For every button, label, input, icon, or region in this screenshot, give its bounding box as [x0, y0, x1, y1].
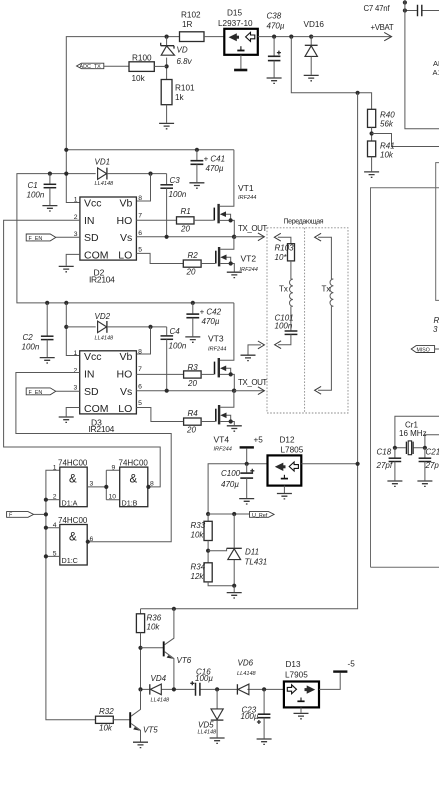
svg-text:R1: R1 [181, 207, 191, 216]
wire: LO pin 5 step down to R2 [136, 253, 183, 263]
ground: under R101 [159, 123, 174, 128]
svg-text:100n: 100n [27, 191, 45, 200]
svg-text:C1: C1 [28, 181, 38, 190]
node: rail junction pin4 [44, 526, 48, 530]
svg-text:VT6: VT6 [177, 656, 192, 665]
svg-text:C7 47nf: C7 47nf [364, 4, 391, 13]
svg-text:IRF244: IRF244 [240, 267, 258, 273]
diode VD1 LL4148 [95, 158, 167, 188]
resistor R40 56k [368, 109, 396, 141]
label TX_OUT lower with arrow [234, 378, 267, 395]
svg-text:IN: IN [84, 369, 95, 381]
svg-text:8: 8 [138, 349, 142, 356]
diode VD5 LL4148 [198, 689, 224, 737]
svg-text:TX_OUT: TX_OUT [238, 224, 267, 233]
node: VT3/VT4 midpoint junction [232, 389, 236, 393]
resistor R103 10* [275, 244, 295, 280]
wire: Vb pin 8 stub [136, 174, 150, 201]
node: VT6 base junction [138, 646, 142, 650]
ground: under R41 [364, 172, 379, 177]
wire: D3 main vertical rail to Vcc [66, 303, 79, 356]
zener diode VD 6.8v [161, 37, 193, 80]
svg-text:3: 3 [433, 325, 438, 334]
box: dashed transformer enclosure [267, 219, 348, 414]
wire: D1:A output to D1:B tied inputs [106, 470, 119, 499]
ground: under D13 [294, 707, 309, 718]
svg-text:10k: 10k [132, 74, 146, 83]
svg-text:R2: R2 [188, 251, 199, 260]
wire: long vertical +5 rail down to bottom rail [141, 93, 358, 609]
svg-text:LL4148: LL4148 [237, 671, 257, 677]
node: C42 junction [191, 301, 195, 305]
svg-text:R34: R34 [191, 563, 206, 572]
svg-text:R32: R32 [99, 707, 114, 716]
svg-text:C21: C21 [426, 448, 439, 457]
node: output rail junction [356, 462, 360, 466]
svg-text:R: R [434, 316, 439, 325]
capacitor C1 100n [27, 174, 57, 205]
inductor Tx primary [279, 279, 293, 330]
svg-text:1R: 1R [182, 20, 193, 29]
regulator D13 L7905 [284, 660, 319, 707]
wire: Vs pin 6 rail (TX_OUT upper) [136, 236, 234, 238]
svg-text:&: & [130, 474, 138, 486]
node: rail junction on main left rail [64, 148, 68, 152]
svg-text:1: 1 [74, 197, 78, 204]
wire: negative rectifier line [141, 688, 284, 690]
gate U D1:A 74HC00 [46, 458, 106, 507]
svg-text:8: 8 [138, 195, 142, 202]
svg-text:56k: 56k [380, 120, 394, 129]
node: D1:B output junction [146, 485, 150, 489]
resistor R4 20 [184, 409, 216, 435]
capacitor C38 470u [267, 12, 285, 78]
node: rail junction F tag [44, 512, 48, 516]
svg-text:100n: 100n [22, 343, 40, 352]
svg-text:Vb: Vb [119, 197, 132, 209]
svg-text:100µ: 100µ [195, 674, 213, 683]
svg-text:Vs: Vs [120, 232, 132, 244]
svg-text:5: 5 [138, 400, 142, 407]
svg-text:R33: R33 [191, 521, 206, 530]
ground: under C23 [257, 739, 272, 744]
box: microcontroller (cut off at right edge) [371, 188, 439, 568]
svg-text:74HC00: 74HC00 [58, 516, 88, 525]
ground: under C42 [185, 337, 200, 342]
svg-text:LL4148: LL4148 [198, 730, 218, 736]
svg-text:VT5: VT5 [143, 726, 158, 735]
svg-text:MISO: MISO [417, 347, 430, 353]
gate U D1:C 74HC00 [46, 516, 94, 565]
node: D1:B input tie junction [104, 485, 108, 489]
svg-text:TX_OUT: TX_OUT [238, 378, 267, 387]
node: C3 to Vs junction [165, 235, 169, 239]
svg-text:IRF244: IRF244 [214, 447, 232, 453]
wire: IN pin 2 to D1:B output pin 8 (left rail) [4, 220, 161, 487]
wire: +VBAT top rail left segment and main left rail down to D2 Vcc [66, 37, 179, 203]
svg-text:16 MHz: 16 MHz [399, 429, 427, 438]
svg-text:+ C41: + C41 [204, 155, 226, 164]
svg-text:F_EN: F_EN [29, 390, 43, 396]
svg-text:3: 3 [74, 385, 78, 392]
transistor VT4 IRF244 (N-MOSFET low side) [214, 391, 235, 453]
svg-text:COM: COM [84, 403, 109, 415]
svg-text:Vb: Vb [119, 351, 132, 363]
node: Vb bootstrap junction (D3) [148, 325, 152, 329]
resistor R102 [180, 11, 205, 42]
inductor Tx secondary with entry arrows [315, 233, 334, 394]
tag F [7, 512, 46, 519]
ground: TL431 anode [227, 586, 242, 598]
wire: branch from rail down to R40 row [291, 37, 371, 110]
ground: under C21 [417, 481, 432, 486]
capacitor C101 100n [275, 314, 298, 349]
svg-text:C18: C18 [377, 448, 392, 457]
svg-text:R40: R40 [380, 111, 395, 120]
wire: divider output step to right edge [372, 134, 439, 147]
node: crystal left junction [393, 446, 397, 450]
svg-text:+ C42: + C42 [200, 308, 222, 317]
node: VD5 junction [215, 687, 219, 691]
svg-text:Tx: Tx [322, 285, 331, 294]
transistor VT5 [130, 689, 158, 741]
tag ADC_TX [77, 63, 130, 70]
svg-text:7: 7 [138, 366, 142, 373]
svg-text:-5: -5 [348, 660, 356, 669]
wire: D3 IN pin 2 to D1:C output pin 6 [16, 373, 171, 542]
svg-text:74HC00: 74HC00 [58, 458, 88, 467]
svg-text:D1:A: D1:A [62, 498, 78, 507]
svg-text:LL4148: LL4148 [95, 336, 115, 342]
svg-text:VD: VD [177, 46, 188, 55]
ground: under VD16 [304, 75, 319, 80]
svg-text:TL431: TL431 [245, 558, 268, 567]
power symbol -5 with D13 output [319, 660, 355, 690]
shunt reference D11 TL431 [208, 514, 267, 586]
node: crystal right junction [423, 446, 427, 450]
svg-text:10k: 10k [99, 724, 113, 733]
svg-text:Vcc: Vcc [84, 351, 102, 363]
capacitor C41 470u [191, 150, 226, 182]
capacitor C100 470u [221, 464, 254, 498]
node: D3 top rail junction main [64, 301, 68, 305]
svg-text:10k: 10k [147, 623, 161, 632]
svg-text:IRF244: IRF244 [208, 347, 226, 353]
tag F_EN (D3) [26, 388, 79, 396]
svg-text:ADC_TX: ADC_TX [80, 64, 102, 70]
ground: under D15 [234, 55, 247, 70]
svg-text:4: 4 [53, 522, 57, 529]
regulator D15 L2937-10 [218, 9, 258, 55]
resistor R41 10k [368, 141, 395, 171]
wire: LO pin 5 step down to R4 [136, 408, 183, 422]
resistor R36 10k [136, 609, 161, 690]
node: VD16 junction [309, 35, 313, 39]
svg-text:1: 1 [74, 350, 78, 357]
svg-text:COM: COM [84, 249, 109, 261]
svg-text:D1:B: D1:B [122, 498, 138, 507]
svg-text:R3: R3 [188, 363, 199, 372]
node: R40/R41 divider junction [370, 131, 374, 135]
box: top-right IC (cut off) [405, 0, 439, 129]
node: C1 junction [48, 172, 52, 176]
transistor VT1 IRF244 (N-MOSFET high side) [214, 150, 256, 237]
svg-text:C38: C38 [267, 12, 282, 21]
node: main rail crossing junction [64, 172, 68, 176]
node: rail junction pin2 [44, 498, 48, 502]
node: VD2 line junction [64, 325, 68, 329]
svg-text:D13: D13 [286, 660, 301, 669]
svg-text:VD2: VD2 [95, 312, 111, 321]
transistor VT3 IRF244 (N-MOSFET high side) [208, 303, 234, 391]
ground: transformer return [241, 355, 256, 360]
capacitor C23 100u [241, 689, 271, 738]
svg-text:20: 20 [186, 426, 196, 435]
svg-text:6: 6 [138, 230, 142, 237]
capacitor C7 47nf [364, 0, 439, 16]
svg-text:Tx: Tx [279, 285, 288, 294]
capacitor C3 100n bootstrap [160, 174, 186, 237]
regulator D12 L7805 [268, 436, 304, 486]
node: R33/R34 divider junction [206, 549, 210, 553]
diode VD16 [304, 20, 325, 75]
svg-text:SD: SD [84, 386, 99, 398]
svg-text:A1: A1 [433, 68, 439, 77]
svg-text:2: 2 [74, 368, 78, 375]
node: VT1/VT2 midpoint junction [232, 235, 236, 239]
crystal Cr1 16 MHz [395, 416, 439, 454]
capacitor C21 27pf [419, 448, 439, 481]
resistor R32 10k [96, 707, 130, 733]
node: VT6 emitter junction [172, 687, 176, 691]
wire: D12 output to +5 rail [301, 463, 357, 465]
svg-text:7: 7 [138, 212, 142, 219]
svg-text:20: 20 [186, 268, 196, 277]
wire: VD1 line with left drop rail to D3 section top rail [17, 174, 234, 303]
node: C100 junction [245, 462, 249, 466]
box: small component box at right edge [436, 163, 439, 301]
diode VD6 LL4148 [237, 659, 257, 695]
capacitor C4 100n bootstrap [161, 327, 187, 391]
capacitor C42 470u [186, 303, 221, 336]
svg-text:F_EN: F_EN [29, 236, 43, 242]
node: C4 to Vs junction [165, 389, 169, 393]
ground: under C100 [239, 499, 254, 504]
node: R100/R101 junction [165, 64, 169, 68]
svg-text:R41: R41 [380, 142, 395, 151]
ground: under C41 [189, 183, 204, 188]
svg-text:U_Ref: U_Ref [252, 513, 268, 519]
svg-text:VT1: VT1 [238, 183, 254, 193]
node: C41 junction [195, 148, 199, 152]
svg-text:1k: 1k [175, 93, 185, 102]
diode VD2 LL4148 [66, 312, 166, 342]
svg-text:D1:C: D1:C [62, 556, 78, 565]
transistor VT2 IRF244 (N-MOSFET low side) [216, 237, 258, 273]
wire: Vb pin 8 stub (D3) [136, 327, 150, 354]
svg-text:VD16: VD16 [304, 20, 325, 29]
svg-text:&: & [69, 532, 77, 544]
svg-text:27pf: 27pf [376, 461, 393, 470]
svg-text:Vcc: Vcc [84, 197, 102, 209]
svg-text:+5: +5 [254, 436, 264, 445]
node: VT4 source/body junction [229, 419, 233, 423]
svg-text:LO: LO [118, 403, 132, 415]
svg-text:D12: D12 [280, 436, 295, 445]
node: C23 junction [262, 687, 266, 691]
capacitor C16 100u [190, 668, 213, 696]
svg-text:3: 3 [90, 481, 94, 488]
svg-text:VD4: VD4 [151, 674, 167, 683]
transistor VT6 [141, 609, 192, 690]
wire: D2 top bootstrap rail to VT1 drain branch [66, 149, 234, 151]
svg-text:L7905: L7905 [285, 671, 308, 680]
svg-text:C2: C2 [23, 333, 34, 342]
svg-text:R102: R102 [181, 11, 201, 20]
svg-text:10k: 10k [380, 151, 394, 160]
resistor R2 20 [183, 251, 215, 277]
label TX_OUT upper with arrow [234, 224, 267, 241]
node: VT2 source/body junction [229, 261, 233, 265]
node: U_Ref node junction [206, 512, 210, 516]
svg-text:+VBAT: +VBAT [371, 23, 394, 32]
wire: R102 to D15 [204, 36, 224, 38]
svg-text:D15: D15 [227, 9, 242, 18]
node: Vb bootstrap junction [148, 172, 152, 176]
svg-text:8: 8 [150, 481, 154, 488]
svg-text:9: 9 [112, 465, 116, 472]
svg-text:100n: 100n [169, 190, 187, 199]
ground: under C2 [40, 358, 55, 363]
svg-text:1: 1 [53, 465, 57, 472]
svg-text:IRF244: IRF244 [238, 195, 256, 201]
resistor R1 20 [136, 207, 213, 234]
svg-text:470µ: 470µ [206, 164, 224, 173]
wire: primary winding top entry arrow [274, 233, 291, 243]
svg-text:5: 5 [138, 247, 142, 254]
node: D1:C output junction [86, 540, 90, 544]
svg-text:10: 10 [109, 493, 117, 500]
svg-text:IR2104: IR2104 [89, 275, 115, 285]
svg-text:100n: 100n [169, 342, 187, 351]
node: junction to long +5 rail [356, 91, 360, 95]
capacitor C18 27pf [376, 448, 402, 481]
node: VT1 source/body junction [229, 218, 233, 222]
resistor R100 [129, 54, 167, 84]
svg-text:LL4148: LL4148 [151, 698, 171, 704]
ground: under D12 [277, 486, 292, 499]
node: VD4/rail junction [138, 687, 142, 691]
svg-text:VD5: VD5 [198, 721, 214, 730]
node: VT6 collector junction on rail [172, 607, 176, 611]
svg-text:R36: R36 [147, 614, 162, 623]
diode VD4 LL4148 [150, 674, 170, 704]
svg-text:Передающая: Передающая [284, 219, 324, 226]
svg-text:HO: HO [117, 215, 133, 227]
svg-text:C3: C3 [170, 176, 181, 185]
svg-text:6.8v: 6.8v [177, 57, 193, 66]
svg-text:HO: HO [117, 369, 133, 381]
node: junction dot at zener tap on top rail [165, 35, 169, 39]
capacitor C2 100n [22, 303, 54, 357]
resistor R101 [161, 80, 195, 123]
svg-text:470µ: 470µ [202, 317, 220, 326]
svg-text:10*: 10* [275, 253, 288, 262]
svg-text:6: 6 [138, 384, 142, 391]
label partial R 3 at right edge [433, 316, 439, 334]
svg-text:R101: R101 [175, 84, 195, 93]
svg-text:Vs: Vs [120, 386, 132, 398]
power symbol +5 [240, 436, 264, 464]
svg-text:L7805: L7805 [281, 446, 304, 455]
wire: ground return arrow into transformer [248, 341, 264, 355]
gate U D1:B 74HC00 [109, 458, 155, 507]
ground: VT4 source [227, 426, 242, 431]
resistor R33 10k [191, 514, 213, 563]
wire: D12 input line down to U_Ref node [208, 464, 267, 514]
svg-text:470µ: 470µ [221, 480, 239, 489]
svg-text:L2937-10: L2937-10 [218, 19, 253, 28]
wire: input rail with F tag down to R32 [46, 470, 96, 719]
svg-text:&: & [69, 474, 77, 486]
resistor R3 20 [136, 363, 214, 388]
svg-text:20: 20 [180, 225, 190, 234]
node: branch-down junction [289, 35, 293, 39]
svg-text:470µ: 470µ [267, 22, 285, 31]
svg-text:C100: C100 [221, 469, 241, 478]
svg-text:100µ: 100µ [241, 712, 259, 721]
svg-text:LO: LO [118, 249, 132, 261]
tag MISO [411, 346, 439, 354]
svg-text:VD6: VD6 [238, 659, 254, 668]
svg-text:27pf: 27pf [425, 461, 439, 470]
svg-text:2: 2 [53, 493, 57, 500]
svg-text:R100: R100 [132, 54, 152, 63]
svg-text:IR2104: IR2104 [89, 424, 115, 434]
svg-text:VT4: VT4 [214, 435, 230, 445]
svg-text:C4: C4 [170, 327, 181, 336]
ground: under C1 [42, 206, 57, 211]
svg-text:VD1: VD1 [95, 158, 111, 167]
ground: VT5 emitter [133, 742, 148, 747]
svg-text:IN: IN [84, 215, 95, 227]
svg-text:R4: R4 [188, 409, 199, 418]
node: C38 junction [272, 35, 276, 39]
svg-text:VT3: VT3 [208, 334, 224, 344]
ground: under C38 [267, 78, 282, 83]
node: rail junction pin5 [44, 554, 48, 558]
tag F_EN (D2) [26, 234, 80, 242]
ground: under VD5 [210, 738, 225, 743]
svg-text:VT2: VT2 [241, 254, 257, 264]
svg-text:100n: 100n [275, 322, 293, 331]
svg-text:74HC00: 74HC00 [119, 458, 149, 467]
ground: under C18 [387, 481, 402, 486]
svg-text:20: 20 [187, 379, 197, 388]
ground: VT2 source [227, 272, 242, 277]
tag U_Ref [208, 512, 274, 519]
node: TL431 anode junction [232, 584, 236, 588]
svg-text:D11: D11 [245, 548, 259, 557]
wire: Vs pin 6 rail (TX_OUT lower) [136, 390, 234, 392]
wire: D15 output rail to VD16 [258, 36, 311, 38]
svg-text:AD: AD [433, 59, 439, 68]
svg-text:SD: SD [84, 232, 99, 244]
svg-text:LL4148: LL4148 [95, 181, 115, 187]
IC D3 IR2104 [74, 349, 143, 434]
resistor R34 12k [191, 563, 235, 586]
node: VT3 source/body junction [229, 372, 233, 376]
